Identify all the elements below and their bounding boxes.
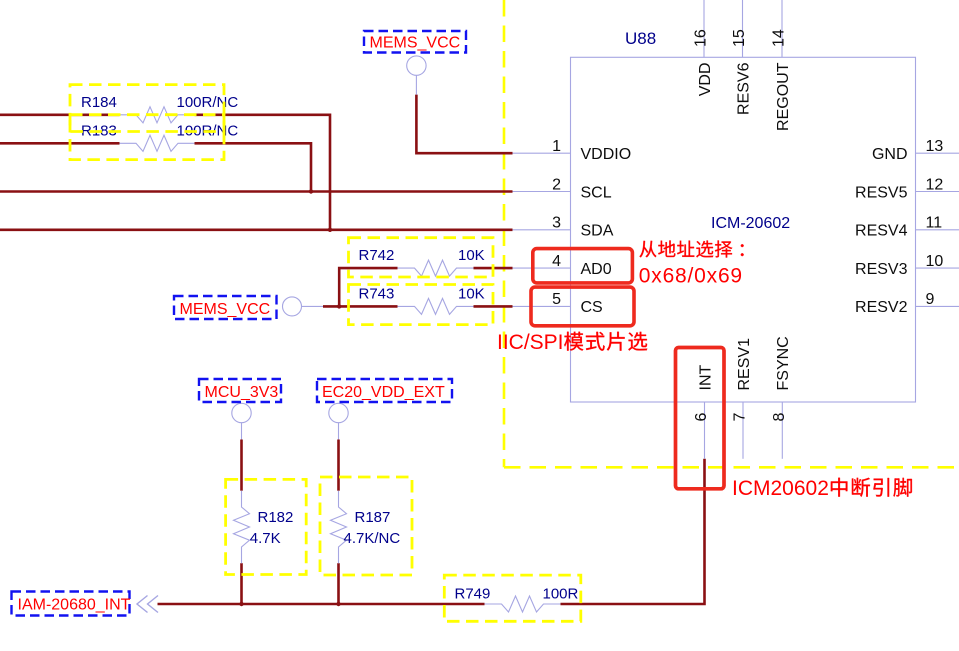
svg-text:R187: R187 bbox=[355, 509, 391, 526]
svg-text:11: 11 bbox=[926, 215, 943, 232]
pin 16 VDD (top) bbox=[703, 0, 705, 57]
wire: R183 right to SCL net bbox=[195, 143, 312, 191]
resistor R184 100R/NC bbox=[120, 107, 195, 123]
wire: SDA horizontal to pin 3 bbox=[0, 229, 513, 232]
pin 7 RESV1 (bottom) bbox=[742, 402, 744, 459]
pin 5 CS (left) bbox=[513, 305, 571, 307]
svg-text:R182: R182 bbox=[258, 509, 294, 526]
svg-text:FSYNC: FSYNC bbox=[775, 336, 792, 390]
pin 4 AD0 (left) bbox=[513, 267, 571, 269]
svg-text:RESV4: RESV4 bbox=[855, 223, 908, 240]
wire: R743 to CS pin 5 bbox=[474, 305, 513, 308]
yellow dashed box around R187 bbox=[320, 477, 412, 575]
svg-text:GND: GND bbox=[872, 146, 908, 163]
svg-text:IAM-20680_INT: IAM-20680_INT bbox=[18, 597, 131, 614]
svg-text:100R: 100R bbox=[543, 586, 579, 603]
pin 9 RESV2 (right) bbox=[916, 305, 959, 307]
svg-text:RESV1: RESV1 bbox=[736, 338, 753, 391]
yellow dashed box around R743 bbox=[349, 285, 494, 325]
port chevron arrows bbox=[137, 596, 158, 613]
wire: net to R183 from left edge bbox=[0, 142, 120, 145]
resistor R749 100R bbox=[485, 596, 561, 612]
annotation box around pin 4 AD0 bbox=[533, 249, 633, 283]
svg-text:0x68/0x69: 0x68/0x69 bbox=[639, 264, 743, 287]
svg-text:4.7K: 4.7K bbox=[250, 530, 281, 547]
svg-text:R743: R743 bbox=[359, 285, 395, 302]
wire: R742 to AD0 pin 4 bbox=[474, 267, 513, 270]
svg-text:12: 12 bbox=[926, 176, 944, 193]
svg-text:2: 2 bbox=[552, 176, 561, 193]
pin 13 GND (right) bbox=[916, 152, 959, 154]
svg-text:AD0: AD0 bbox=[581, 261, 612, 278]
resistor R183 100R/NC bbox=[120, 135, 195, 151]
node: junction MEMS_VCC branch bbox=[337, 304, 341, 308]
resistor R187 4.7K/NC bbox=[331, 491, 347, 564]
svg-text:ICM-20602: ICM-20602 bbox=[711, 215, 790, 232]
resistor R742 10K bbox=[398, 260, 474, 276]
svg-text:10K: 10K bbox=[458, 247, 485, 264]
svg-text:RESV6: RESV6 bbox=[735, 62, 752, 115]
yellow dashed box around R184 bbox=[70, 85, 224, 132]
svg-text:7: 7 bbox=[732, 413, 749, 422]
svg-text:IIC/SPI: IIC/SPI bbox=[497, 331, 564, 354]
svg-text:INT: INT bbox=[697, 365, 714, 391]
svg-text:MCU_3V3: MCU_3V3 bbox=[205, 384, 279, 401]
pin 10 RESV3 (right) bbox=[916, 267, 959, 269]
wire: IAM-20680_INT port to R749 bbox=[158, 603, 485, 606]
svg-text:4: 4 bbox=[552, 253, 561, 270]
svg-text:4.7K/NC: 4.7K/NC bbox=[344, 530, 401, 547]
svg-text:U88: U88 bbox=[625, 29, 656, 48]
svg-text:ICM20602: ICM20602 bbox=[732, 477, 829, 500]
resistor R743 10K bbox=[398, 298, 474, 314]
yellow dashed box around R182 bbox=[226, 479, 307, 574]
wire: R187 down to INT net bbox=[337, 563, 340, 604]
svg-text:100R/NC: 100R/NC bbox=[177, 94, 239, 111]
svg-text:9: 9 bbox=[926, 291, 935, 308]
svg-text:5: 5 bbox=[552, 291, 561, 308]
power port MCU_3V3 bbox=[232, 403, 251, 422]
wire: MCU_3V3 down to R182 bbox=[240, 440, 243, 491]
wire: net to R184 from left edge bbox=[0, 114, 120, 117]
svg-text:SDA: SDA bbox=[581, 223, 614, 240]
svg-text:SCL: SCL bbox=[581, 184, 612, 201]
yellow dashed guide line (horizontal) bbox=[504, 466, 959, 469]
yellow dashed box around R742 bbox=[349, 238, 494, 277]
wire: EC20_VDD_EXT down to R187 bbox=[337, 440, 340, 491]
svg-text:6: 6 bbox=[693, 413, 710, 422]
svg-text:14: 14 bbox=[771, 29, 788, 47]
svg-text:RESV2: RESV2 bbox=[855, 299, 908, 316]
yellow dashed box around R183 bbox=[70, 115, 224, 160]
svg-text:MEMS_VCC: MEMS_VCC bbox=[370, 35, 461, 52]
svg-text:EC20_VDD_EXT: EC20_VDD_EXT bbox=[322, 384, 445, 401]
svg-text:VDDIO: VDDIO bbox=[581, 146, 632, 163]
svg-text:13: 13 bbox=[926, 138, 944, 155]
pin 3 SDA (left) bbox=[513, 229, 571, 231]
power port EC20_VDD_EXT bbox=[329, 403, 348, 422]
pin 15 RESV6 (top) bbox=[742, 0, 744, 57]
op chip U88 ICM-20602 body bbox=[571, 57, 916, 402]
node: junction R184/SDA bbox=[328, 228, 332, 232]
wire: R182 down to INT net bbox=[240, 563, 243, 604]
node: junction R187/INT net bbox=[336, 602, 340, 606]
wire: R184 right to SDA net bbox=[195, 115, 331, 230]
wire: SCL horizontal to pin 2 bbox=[0, 190, 513, 193]
wire: R749 to INT pin 6 bbox=[561, 459, 705, 604]
svg-text:10: 10 bbox=[926, 253, 944, 270]
power port MEMS_VCC (left of R742/R743) bbox=[283, 297, 302, 316]
pin 1 VDDIO (left) bbox=[513, 152, 571, 154]
pin 14 REGOUT (top) bbox=[781, 0, 783, 57]
port IAM-20680_INT bbox=[12, 592, 130, 616]
svg-text:REGOUT: REGOUT bbox=[775, 62, 792, 131]
svg-text:MEMS_VCC: MEMS_VCC bbox=[180, 301, 271, 318]
pin 6 INT (bottom) bbox=[704, 402, 706, 459]
resistor R182 4.7K bbox=[234, 491, 250, 564]
svg-text:R742: R742 bbox=[359, 247, 395, 264]
pin 8 FSYNC (bottom) bbox=[781, 402, 783, 459]
svg-text:1: 1 bbox=[552, 138, 561, 155]
svg-text:3: 3 bbox=[552, 215, 561, 232]
node: junction R182/INT net bbox=[239, 602, 243, 606]
svg-text:15: 15 bbox=[731, 29, 748, 47]
annotation box around pin 6 INT bbox=[676, 348, 725, 489]
node: junction R183/SCL bbox=[309, 189, 313, 193]
pin 2 SCL (left) bbox=[513, 191, 571, 193]
svg-text:VDD: VDD bbox=[697, 63, 714, 97]
svg-text:16: 16 bbox=[693, 29, 710, 47]
svg-text:10K: 10K bbox=[458, 285, 485, 302]
pin 11 RESV4 (right) bbox=[916, 229, 959, 231]
svg-text:CS: CS bbox=[581, 299, 603, 316]
svg-text:R749: R749 bbox=[455, 586, 491, 603]
wire: MEMS_VCC to R742/R743 bbox=[323, 305, 398, 308]
wire: MEMS_VCC power to VDDIO pin 1 bbox=[416, 95, 512, 154]
svg-text:R184: R184 bbox=[81, 94, 117, 111]
yellow dashed box around R749 bbox=[444, 575, 581, 621]
svg-text:RESV5: RESV5 bbox=[855, 184, 908, 201]
annotation: slave address selection (Chinese) bbox=[639, 241, 656, 258]
power port MEMS_VCC (top) bbox=[407, 56, 426, 75]
svg-text:RESV3: RESV3 bbox=[855, 261, 908, 278]
yellow dashed guide line (vertical) bbox=[503, 0, 506, 467]
pin 12 RESV5 (right) bbox=[916, 191, 959, 193]
annotation box around pin 5 CS bbox=[531, 287, 634, 326]
svg-text:8: 8 bbox=[771, 413, 788, 422]
